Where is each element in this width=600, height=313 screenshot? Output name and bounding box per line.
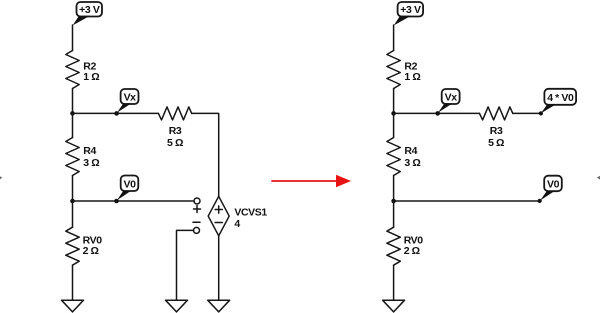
- svg-text:5 Ω: 5 Ω: [488, 137, 504, 149]
- node V0 junction: [70, 199, 75, 204]
- wire node Vx to R4: [72, 113, 74, 137]
- svg-text:+3 V: +3 V: [400, 4, 421, 16]
- dependent source VCVS1: [208, 196, 267, 236]
- svg-text:R3: R3: [169, 125, 182, 137]
- wire node V0 to label V0 (right): [394, 200, 540, 202]
- svg-text:VCVS1: VCVS1: [234, 206, 267, 218]
- wire R2 to node Vx: [72, 89, 74, 114]
- net label +3 V (right): [394, 2, 423, 25]
- svg-text:V0: V0: [547, 179, 560, 191]
- wire RV0 to ground (right): [393, 265, 395, 300]
- wire VCVS1 bottom to ground: [218, 236, 220, 300]
- node Vx junction: [70, 111, 75, 116]
- ground (right circuit): [383, 300, 405, 312]
- red arrow: [272, 175, 351, 188]
- edge artifact left: [0, 176, 2, 179]
- wire node V0 to RV0 (right): [393, 201, 395, 227]
- svg-text:4: 4: [234, 218, 240, 230]
- resistor RV0 (right): [387, 227, 423, 265]
- svg-text:1 Ω: 1 Ω: [404, 71, 420, 83]
- svg-text:5 Ω: 5 Ω: [167, 137, 183, 149]
- resistor R3 (left): [158, 107, 191, 149]
- wire R3 to VCVS1 top: [192, 113, 219, 196]
- resistor RV0 (left): [66, 227, 102, 265]
- svg-text:R4: R4: [404, 145, 417, 157]
- svg-text:4 * V0: 4 * V0: [547, 92, 574, 104]
- wire +3V to R2: [72, 25, 74, 51]
- svg-text:Vx: Vx: [445, 91, 458, 103]
- wire R2 to node Vx (right): [393, 89, 395, 114]
- svg-text:2 Ω: 2 Ω: [404, 245, 420, 257]
- wire control - to ground: [177, 230, 194, 300]
- node V0 junction (right): [391, 199, 396, 204]
- net label V0 (left): [114, 176, 138, 204]
- resistor R2 (left): [66, 51, 99, 89]
- resistor R2 (right): [387, 51, 420, 89]
- net label Vx (right): [435, 89, 459, 116]
- net label 4 * V0 (right): [539, 89, 576, 116]
- wire R3 to label 4*V0: [513, 112, 541, 114]
- ground (VCVS1): [208, 300, 230, 312]
- net label V0 (right): [538, 176, 562, 203]
- net label Vx (left): [114, 89, 138, 116]
- svg-text:2 Ω: 2 Ω: [83, 245, 99, 257]
- resistor R4 (left): [66, 138, 99, 176]
- VCVS1 control terminal +: [194, 198, 201, 213]
- svg-text:V0: V0: [123, 178, 136, 190]
- svg-text:3 Ω: 3 Ω: [83, 157, 99, 169]
- wire R4 to node V0: [72, 176, 74, 202]
- ground (control): [166, 300, 188, 312]
- svg-text:Vx: Vx: [124, 91, 137, 103]
- net label +3 V (left): [73, 2, 102, 25]
- ground (left circuit): [62, 300, 84, 312]
- wire node Vx to R3: [73, 112, 159, 114]
- wire +3V to R2 (right): [393, 25, 395, 51]
- wire node Vx to R4 (right): [393, 113, 395, 137]
- svg-text:+3 V: +3 V: [79, 4, 100, 16]
- resistor R3 (right): [480, 107, 513, 149]
- VCVS1 control terminal -: [193, 222, 200, 233]
- svg-text:1 Ω: 1 Ω: [83, 71, 99, 83]
- wire node Vx to R3 (right): [394, 112, 480, 114]
- edge artifact right: [597, 176, 600, 180]
- resistor R4 (right): [387, 138, 420, 176]
- svg-text:3 Ω: 3 Ω: [404, 157, 420, 169]
- wire node V0 to RV0: [72, 201, 74, 227]
- svg-text:R4: R4: [83, 145, 96, 157]
- node Vx junction (right): [391, 111, 396, 116]
- wire RV0 to ground: [72, 265, 74, 300]
- svg-text:R3: R3: [490, 125, 503, 137]
- wire R4 to node V0 (right): [393, 176, 395, 202]
- wire node V0 to control +: [73, 200, 195, 202]
